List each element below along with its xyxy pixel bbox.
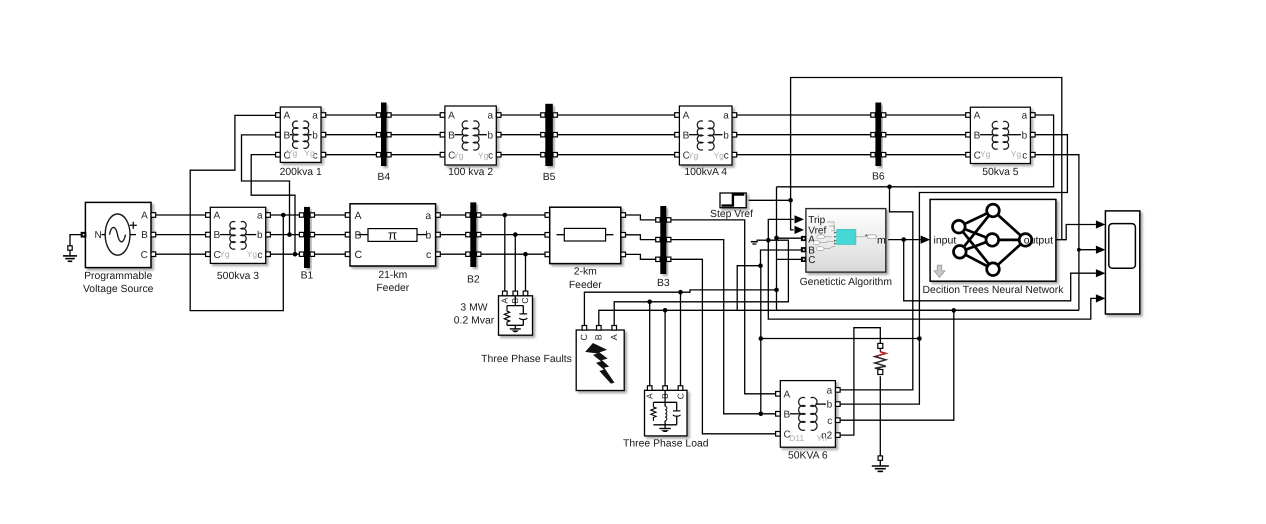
svg-text:c: c [426,249,431,261]
svg-text:3 MW: 3 MW [460,302,487,313]
node tap b feed 200kva1 [287,232,292,237]
svg-text:A: A [609,334,619,340]
arrow into scope input 2 [1096,246,1106,254]
svg-text:b: b [1022,130,1028,141]
wire phase c lower line [777,309,1079,311]
node step vref junction [788,198,793,203]
wire B3 b down [669,240,778,414]
svg-text:a: a [312,111,318,122]
svg-text:B3: B3 [657,278,670,289]
wire B4 to 100kva2 b [389,134,443,136]
node m junction [901,237,906,242]
wire 200kva1 to B4 a [323,114,378,116]
svg-text:Yg: Yg [713,151,724,161]
wire B6 to 50kva5 c [884,154,968,156]
wire 200kva1 to B4 b [323,134,378,136]
svg-text:B1: B1 [301,271,314,282]
svg-text:B: B [448,130,455,141]
bus B1 [304,207,310,268]
svg-text:B: B [974,130,981,141]
transformer 200kva 1 [280,107,321,162]
node tap a feed 200kva1 [281,213,286,218]
svg-text:A: A [448,111,455,122]
wire 919 riser [919,135,1067,339]
svg-text:B: B [141,230,148,241]
svg-text:B: B [214,230,221,241]
arrow into GA Trip [795,215,805,223]
arrow into scope input 3 [1096,269,1106,277]
transformer 50KVA 6 [780,381,835,448]
node 50KVA6 B row join [759,412,764,417]
wire tap C to 3MW block [525,254,527,293]
svg-text:2-km: 2-km [574,267,597,278]
svg-text:A: A [974,111,981,122]
wire tap b to 200kva1 B [242,135,290,235]
wire GA B branch down [760,266,762,414]
node GA B junction [758,263,763,268]
arrow into NN input [921,236,931,244]
svg-text:A: A [499,297,509,303]
svg-text:B: B [284,130,291,141]
svg-text:c: c [1022,150,1027,161]
wire B5 to 100kvA4 c [555,154,677,156]
node trip tick junction [766,238,771,243]
wire 200kva1 to B4 c [323,154,378,156]
svg-text:21-km: 21-km [378,270,407,281]
svg-text:50KVA 6: 50KVA 6 [788,451,828,462]
wire load A drop [649,302,651,388]
svg-text:Feeder: Feeder [376,283,409,294]
svg-text:Yg: Yg [219,249,230,259]
resistor grounding element [878,343,883,348]
svg-text:A: A [645,393,655,399]
svg-text:100 kva 2: 100 kva 2 [448,167,493,178]
svg-text:B: B [355,229,362,241]
node fault B to load [663,308,668,313]
wire B5 to 100kvA4 a [555,114,677,116]
wire phase A B2 to 2km feeder [479,214,548,216]
svg-text:C: C [579,333,589,340]
scope block [1105,211,1139,314]
wire loop tap a to 200kva1 A [190,115,283,310]
svg-text:N: N [95,230,102,241]
block 3 MW 0.2 Mvar [499,296,533,335]
transformer 50kva 5 [970,107,1030,163]
block Decition Trees Neural Network [930,199,1056,281]
wire 100kva2 to B5 a [499,114,543,116]
svg-text:B2: B2 [467,275,480,286]
svg-text:A: A [683,111,690,122]
wire trip riser [768,219,1096,319]
node tap c feed 200kva1 [293,252,298,257]
svg-text:Yg: Yg [453,151,464,161]
wire phase C B2 to 2km feeder [479,253,548,255]
svg-text:a: a [723,111,729,122]
svg-text:A: A [355,210,362,222]
svg-text:0.2 Mvar: 0.2 Mvar [454,316,495,327]
block 21-km Feeder [350,204,436,266]
svg-text:B: B [784,409,791,420]
svg-text:C: C [675,393,685,399]
svg-text:C: C [808,255,815,266]
wire tap B to 3MW block [514,235,516,294]
svg-text:b: b [312,130,318,141]
svg-text:c: c [724,150,729,161]
svg-text:a: a [257,211,263,222]
bus B5 [545,104,553,166]
wire phase C B1 to 21km feeder [312,253,347,255]
node tap C 3MW [523,252,528,257]
wire phase B B1 to 21km feeder [312,234,347,236]
svg-text:Yg: Yg [478,151,489,161]
svg-text:a: a [1022,111,1028,122]
wire 338 line [761,338,920,340]
svg-text:Three Phase Faults: Three Phase Faults [481,354,572,365]
block Three Phase Faults [576,330,624,391]
svg-text:Yg: Yg [1011,149,1022,159]
wire GA A in [777,237,802,239]
svg-text:Yn: Yn [816,433,827,443]
wire B3 a to 50KVA6 A [669,220,778,394]
svg-text:b: b [488,130,494,141]
node scope in2 junction [1077,248,1081,252]
svg-text:A: A [141,211,148,222]
block Three Phase Load [645,390,688,436]
wire B6 to 50kva5 b [884,134,968,136]
block Genetictic Algorithm [806,209,886,273]
svg-text:Genetictic Algorithm: Genetictic Algorithm [800,277,892,288]
svg-text:C: C [141,250,148,261]
node fault C to load [678,290,683,295]
transformer 500kva 3 [210,207,265,263]
wire phase c 21km feeder to B2 [438,253,468,255]
svg-text:Voltage Source: Voltage Source [83,284,154,295]
wire 100kva2 to B5 b [499,134,543,136]
wire phase b 21km feeder to B2 [438,234,468,236]
wire phase c 500kva3 to B1 [268,253,302,255]
arrow into scope input 1 [1096,220,1106,228]
wire tap A to 3MW block [504,215,506,293]
wire B3 c down [669,259,778,434]
svg-text:B: B [683,130,690,141]
transformer 100kvA 4 [679,106,732,165]
wire phase a 2km feeder to B3 [623,215,658,220]
wire GA A riser [776,187,778,311]
svg-text:100kvA 4: 100kvA 4 [684,167,727,178]
wire load B drop [664,310,666,388]
wire B5 to 100kvA4 b [555,134,677,136]
wire n2 to resistor [838,328,881,435]
svg-text:output: output [1024,234,1053,246]
svg-text:Three Phase Load: Three Phase Load [623,439,709,450]
wire phase c 2km feeder to B3 [623,254,658,259]
node GA A junction [774,236,779,241]
svg-text:a: a [425,210,431,222]
wire 100kvA4 to B6 a [734,114,873,116]
svg-text:Feeder: Feeder [569,280,602,291]
wire 919 drop to 50KVA6 b [838,339,920,405]
svg-text:c: c [827,416,832,427]
svg-text:input: input [934,234,957,246]
wire 100kvA4 to B6 c [734,154,873,156]
wire phase B PVS to 500kva3 [153,234,208,236]
node 50kva5 a branch [887,185,892,190]
svg-text:C: C [520,298,530,304]
wire vref top loop [791,78,1062,240]
wire PVS N to ground [70,235,83,246]
wire phase A PVS to 500kva3 [153,214,208,216]
svg-text:C: C [355,249,363,261]
wire scope in2 [1079,249,1096,251]
svg-text:A: A [214,211,221,222]
svg-text:a: a [488,111,494,122]
bus B2 [470,202,476,267]
wire 50kva5 c drop [1033,155,1079,311]
wire step vref to GA Vref [749,200,794,230]
bus B3 [660,206,666,274]
svg-text:D11: D11 [789,433,804,443]
wire 50KVA6 c riser [838,310,954,420]
block Step Vref [720,193,746,208]
svg-text:Step Vref: Step Vref [710,209,753,220]
svg-text:Trip: Trip [808,215,825,226]
voltage source PVS [85,202,151,267]
svg-text:Decition Trees Neural Network: Decition Trees Neural Network [923,285,1065,296]
wire B4 to 100kva2 c [389,154,443,156]
wire fault B riser to GA B [737,266,760,311]
wire fault A line [614,240,788,328]
node 338 line right join [917,336,922,341]
arrow into GA Vref [795,226,805,234]
node fault C junction [774,288,779,293]
svg-text:B6: B6 [872,172,885,183]
svg-text:Yg: Yg [247,249,258,259]
wire 100kvA4 to B6 b [734,134,873,136]
wire m loop under NN [904,240,1096,301]
svg-text:B: B [594,334,604,340]
wire tick stub [757,239,769,241]
wire phase B B2 to 2km feeder [479,234,548,236]
wire phase b 500kva3 to B1 [268,234,302,236]
svg-text:Yg: Yg [688,151,699,161]
svg-text:200kva 1: 200kva 1 [280,167,322,178]
svg-text:B4: B4 [377,172,390,183]
wire 50kva5 a loop [777,115,1054,187]
svg-text:b: b [827,400,833,411]
svg-text:π: π [388,227,397,242]
wire 100kva2 to B5 c [499,154,543,156]
svg-text:50kva 5: 50kva 5 [982,167,1019,178]
node fault A to load [647,300,652,305]
tick terminator [751,241,758,243]
node tap A 3MW [503,213,508,218]
wire B6 to 50kva5 a [884,114,968,116]
arrow into scope input 4 [1096,294,1106,302]
wire load C drop [680,292,682,388]
ground symbol at resistor [878,456,882,460]
svg-text:A: A [284,111,291,122]
node tap B 3MW [513,232,518,237]
wire GA C in [777,258,802,260]
wire GA B in [761,250,802,266]
svg-text:Yg: Yg [287,148,298,158]
wire phase b 2km feeder to B3 [623,235,658,240]
wire NN output to scope [1056,225,1096,240]
wire phase A B1 to 21km feeder [312,214,347,216]
ground symbol at source [68,246,72,250]
svg-text:A: A [784,389,791,400]
svg-text:Yg: Yg [980,149,991,159]
svg-text:Yg: Yg [304,148,315,158]
node 50KVA6 c junction [952,308,957,313]
wire 50KVA6 a feed [838,187,913,390]
bus B4 [381,103,387,167]
wire GA m to NN input [888,239,920,241]
wire phase C PVS to 500kva3 [153,253,208,255]
wire fault B line [599,310,1079,328]
wire tap c to 200kva1 C [251,155,295,255]
wire phase a 21km feeder to B2 [438,214,468,216]
svg-text:a: a [827,386,833,397]
svg-text:b: b [425,229,431,241]
transformer 100 kva 2 [445,106,496,165]
svg-text:c: c [488,150,493,161]
wire phase a 500kva3 to B1 [268,214,302,216]
svg-text:b: b [723,130,729,141]
svg-text:b: b [257,230,263,241]
svg-text:m: m [877,235,886,247]
wire resistor to ground [879,376,881,456]
block 2-km Feeder [550,207,621,263]
svg-text:Programmable: Programmable [84,271,152,282]
svg-text:B5: B5 [543,172,556,183]
bus B6 [875,103,881,167]
node 338 line join [759,336,764,341]
svg-text:c: c [258,250,263,261]
wire B4 to 100kva2 a [389,114,443,116]
svg-text:500kva 3: 500kva 3 [217,271,259,282]
wire fault C line [584,290,776,328]
